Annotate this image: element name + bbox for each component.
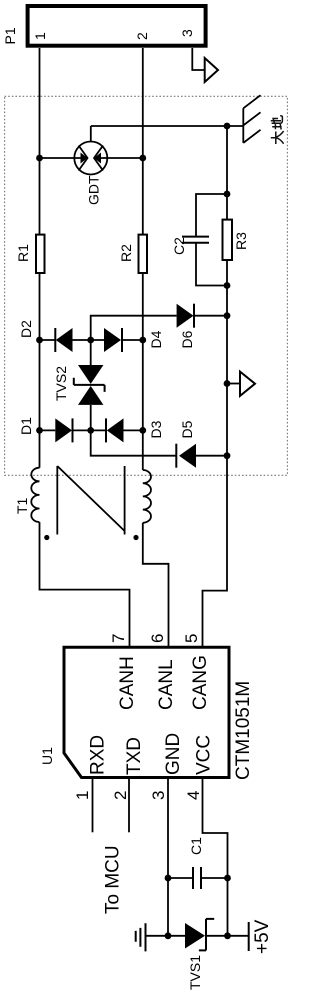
resistor R1	[36, 235, 45, 273]
wire: D2/D4 row	[40, 339, 143, 341]
node M between D2 and D4	[87, 337, 94, 344]
wire: GDT right lead	[107, 157, 143, 159]
earth symbol stub	[227, 125, 243, 127]
node: D1 row col A	[36, 427, 43, 434]
diode D3	[106, 418, 124, 442]
svg-text:4: 4	[184, 791, 203, 800]
svg-text:D6: D6	[179, 330, 195, 348]
capacitor C1 plates	[193, 867, 201, 889]
svg-text:RXD: RXD	[88, 735, 109, 775]
node: D4 row col B	[139, 337, 146, 344]
svg-text:R1: R1	[15, 244, 31, 262]
wire: U1 pin4 VCC jog	[203, 779, 228, 936]
node: C1 at GND column	[165, 875, 172, 882]
diode D1	[55, 418, 72, 442]
wire: TVS1 row	[147, 935, 249, 937]
wire: U1 pin2 TXD stub	[128, 779, 130, 832]
node: C1 at VCC column	[224, 875, 231, 882]
GDT gas discharge tube	[74, 142, 107, 175]
chassis ground arrow mid	[240, 372, 255, 396]
svg-text:GDT: GDT	[85, 175, 101, 205]
wire: stub to chassis arrow on earth column	[227, 383, 240, 385]
svg-text:R3: R3	[233, 232, 249, 250]
svg-text:TVS1: TVS1	[187, 955, 203, 990]
T1 core lines with diagonal	[57, 466, 124, 535]
node: D2 row col A	[36, 337, 43, 344]
wire: node N down and D5 line	[91, 430, 227, 455]
svg-text:CTM1051M: CTM1051M	[233, 681, 254, 780]
svg-text:3: 3	[149, 791, 168, 800]
signal ground symbol	[136, 923, 146, 951]
diode D6	[177, 304, 194, 328]
node: CANH/GDT junction	[36, 155, 43, 162]
diode D5	[176, 444, 196, 468]
svg-text:To MCU: To MCU	[103, 845, 124, 914]
glyph: da	[271, 131, 284, 144]
T1 right winding	[143, 470, 151, 523]
transformer T1	[31, 466, 151, 540]
wire: net CANH column from P1 pin1 down to T1	[39, 48, 41, 468]
wire: node M up and D6 line	[91, 316, 227, 340]
svg-text:2: 2	[111, 791, 130, 800]
wire: earth column (CANG net)	[203, 126, 228, 647]
node: D6 line at earth column	[224, 312, 231, 319]
dashed protection box	[5, 96, 288, 475]
wire: T1 right winding to U1 pin6	[143, 523, 169, 647]
node: D5 line at earth column	[224, 452, 231, 459]
svg-text:2: 2	[134, 32, 150, 40]
wire: T1 left winding to U1 pin7	[40, 522, 130, 647]
T1 polarity dot left	[44, 535, 49, 540]
svg-text:6: 6	[148, 634, 167, 643]
svg-text:VCC: VCC	[194, 735, 215, 775]
resistor R2	[139, 235, 148, 273]
T1 left winding	[31, 468, 39, 522]
svg-text:D2: D2	[18, 320, 34, 338]
svg-text:TVS2: TVS2	[53, 366, 69, 401]
svg-text:C2: C2	[171, 237, 187, 255]
node: earth junction	[224, 123, 231, 130]
node N between D1 and D3	[87, 427, 94, 434]
U1 transceiver box	[64, 647, 229, 777]
svg-text:5: 5	[182, 634, 201, 643]
diode D4	[104, 328, 122, 352]
svg-text:U1: U1	[39, 747, 55, 765]
node: TVS1 row VCC column	[224, 932, 231, 939]
T1 polarity dot right	[133, 535, 138, 540]
node: CANL/GDT junction	[139, 155, 146, 162]
wire: U1 pin3 GND column	[167, 779, 169, 936]
svg-text:+5V: +5V	[252, 919, 273, 954]
node: C2/R3 top junction	[224, 191, 231, 198]
wire: C2 branch	[196, 194, 227, 286]
+5V terminal bar	[248, 922, 250, 951]
svg-text:CANH: CANH	[117, 656, 138, 710]
earth symbol	[243, 95, 260, 143]
node: C2/R3 bottom junction	[224, 282, 231, 289]
capacitor C2 plates	[182, 237, 209, 243]
wire: earth line from GDT to earth column	[91, 125, 227, 127]
wire: GDT top electrode stub	[90, 126, 92, 142]
wire: U1 pin1 RXD stub	[92, 779, 94, 832]
wire: net CANL column from P1 pin2 down to T1	[142, 48, 144, 470]
node: arrow stub junction	[224, 380, 231, 387]
svg-text:R2: R2	[118, 244, 134, 262]
svg-text:D4: D4	[148, 330, 164, 348]
wire: C1 row	[168, 877, 228, 879]
earth label (da di)	[271, 116, 284, 144]
svg-text:7: 7	[109, 634, 128, 643]
svg-text:1: 1	[73, 791, 92, 800]
connector P1	[28, 6, 206, 46]
glyph: di	[271, 116, 283, 130]
svg-text:3: 3	[179, 29, 195, 37]
svg-text:D3: D3	[148, 420, 164, 438]
svg-text:P1: P1	[2, 27, 18, 44]
svg-text:1: 1	[32, 32, 48, 40]
svg-text:GND: GND	[163, 733, 184, 775]
svg-text:TXD: TXD	[124, 737, 145, 775]
chassis ground arrow at P1 pin3	[205, 58, 218, 82]
wire: GDT left lead	[40, 157, 75, 159]
svg-text:CANG: CANG	[190, 655, 211, 710]
resistor R3	[223, 220, 233, 260]
TVS2 bidirectional suppressor	[74, 340, 105, 430]
svg-text:D5: D5	[179, 420, 195, 438]
TVS1 suppressor diode	[185, 919, 214, 951]
svg-text:T1: T1	[14, 497, 30, 514]
svg-text:C1: C1	[188, 837, 204, 855]
diode D2	[55, 328, 72, 352]
svg-text:CANL: CANL	[156, 659, 177, 710]
node: D3 row col B	[139, 427, 146, 434]
wire: P1 pin3 to chassis arrow	[192, 48, 204, 70]
node: TVS1 row GND column	[165, 932, 172, 939]
wire: D1/D3 row	[40, 429, 143, 431]
svg-text:D1: D1	[18, 417, 34, 435]
